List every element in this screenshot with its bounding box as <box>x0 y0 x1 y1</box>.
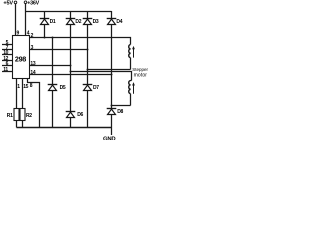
IC U1 L298 box <box>13 36 30 79</box>
line 1 OUT1 from pin 2 to motor <box>30 38 131 45</box>
svg-text:D6: D6 <box>77 112 83 118</box>
wire coil2 return to column D4 <box>112 105 131 107</box>
terminal +5V <box>14 1 17 4</box>
resistor R1 <box>7 109 19 128</box>
wire D3 drop from rail <box>87 12 89 19</box>
svg-text:11: 11 <box>3 67 8 73</box>
wire column D4/D8 <box>111 25 113 109</box>
svg-text:14: 14 <box>30 70 35 76</box>
diode D2 <box>66 19 82 26</box>
svg-text:R1: R1 <box>7 113 13 119</box>
arrow phase B <box>132 82 135 94</box>
terminal +36V <box>24 1 27 4</box>
diode D6 <box>66 112 84 128</box>
svg-text:D5: D5 <box>60 85 66 91</box>
wire coil1 return to column D3 <box>88 69 131 71</box>
wire column D3/D7 <box>87 25 89 85</box>
wire +36V rail <box>26 11 112 13</box>
pin 1 wire to R1 <box>16 79 18 110</box>
pin 6 wire <box>2 65 13 67</box>
svg-text:15: 15 <box>23 84 28 90</box>
svg-text:298: 298 <box>15 54 26 63</box>
svg-text:D4: D4 <box>116 19 122 25</box>
pin 7 wire <box>2 49 13 51</box>
pin 10 wire <box>2 54 13 56</box>
junction dot coil1-return/column D3 <box>87 69 89 71</box>
svg-text:motor: motor <box>134 72 148 78</box>
pin 12 wire <box>2 60 13 62</box>
junction dot coil2-feed/column D2 <box>70 71 72 73</box>
svg-text:D2: D2 <box>75 19 81 25</box>
svg-text:D7: D7 <box>93 85 99 91</box>
junction dot line4/column D4 <box>111 74 113 76</box>
svg-text:R2: R2 <box>26 113 32 119</box>
svg-text:+5V: +5V <box>3 0 13 6</box>
junction dot coil2-return/column D4 <box>111 105 113 107</box>
wire column D2/D6 <box>70 25 72 112</box>
pin 8 wire to ground rail <box>28 79 40 128</box>
svg-text:D1: D1 <box>50 19 56 25</box>
svg-text:GND: GND <box>103 137 116 140</box>
wire coil2 feed from column D2 <box>71 72 132 81</box>
ground rail <box>17 127 112 129</box>
junction dot D1/line1 <box>44 37 46 39</box>
junction dot line3/column D2 <box>70 65 72 67</box>
line 2 OUT2 from pin 3 <box>30 49 88 51</box>
line 4 OUT4 from pin 14 <box>30 74 112 76</box>
coil L1 phase A <box>129 45 131 70</box>
diode D4 <box>107 19 123 26</box>
pin 15 wire to R2 <box>22 79 24 110</box>
wire D1 anode to line 1 <box>44 25 46 38</box>
wire +36V to pin 4 <box>25 4 27 37</box>
ground stub <box>111 128 113 136</box>
arrow phase A <box>132 46 135 58</box>
svg-text:D3: D3 <box>93 19 99 25</box>
wire +5V to pin 9 <box>15 4 17 36</box>
svg-text:13: 13 <box>30 61 35 67</box>
diode D3 <box>83 19 99 26</box>
junction dot line2/column D3 <box>87 49 89 51</box>
svg-text:+36V: +36V <box>27 0 39 6</box>
diode D1 <box>40 19 56 26</box>
line 3 OUT3 from pin 13 <box>30 65 71 67</box>
wire D2 drop from rail <box>70 12 72 19</box>
diode D5 <box>48 38 66 128</box>
coil L2 phase B <box>129 81 132 106</box>
diode D7 <box>83 85 100 128</box>
diode D8 <box>107 109 124 128</box>
pin 11 wire <box>2 71 13 73</box>
junction dot D5/line1 <box>52 37 54 39</box>
svg-text:D8: D8 <box>117 109 123 115</box>
resistor R2 <box>20 109 32 128</box>
pin 5 wire <box>2 44 13 46</box>
wire D4 drop from rail end <box>111 11 113 19</box>
wire D1 drop from rail <box>44 12 46 19</box>
